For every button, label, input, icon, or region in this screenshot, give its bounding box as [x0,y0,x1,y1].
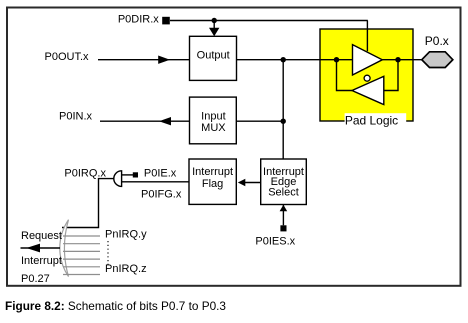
svg-text:P0IN.x: P0IN.x [59,111,93,123]
inverter bubble on input buffer [364,75,370,81]
svg-text:P0IES.x: P0IES.x [255,236,295,248]
buffer input driver (pad logic) [352,76,384,104]
pad logic box [320,29,413,121]
terminal square P0IE.x [133,172,138,177]
svg-text:Select: Select [268,186,299,198]
wire pad logic left feedback [337,60,353,91]
wire interrupt request output arrow [21,244,61,253]
wire collector bracket [60,220,69,277]
wire pad logic right feedback [384,60,398,91]
svg-text:PnIRQ.y: PnIRQ.y [105,228,147,240]
wire collector input 4 [63,258,100,260]
svg-text:P0DIR.x: P0DIR.x [118,13,159,25]
wire Output to pad logic [236,59,421,61]
wire PnIRQ.z input [63,274,100,276]
terminal square P0IES.x [280,225,286,231]
block Output [190,36,237,80]
wire P0OUT.x into Output [98,56,190,64]
svg-text:P0IFG.x: P0IFG.x [141,188,182,200]
wire P0DIR to Output block [209,21,219,37]
svg-text:Figure 8.2: Schematic of bits: Figure 8.2: Schematic of bits P0.7 to P0… [5,299,226,313]
wire P0IFG.x from Interrupt Flag to gate [122,181,189,183]
wire PnIRQ.y input [63,235,100,237]
wire P0DIR.x vertical to pad logic enable [366,21,368,52]
block Interrupt Edge Select [261,159,307,205]
node junction inside pad logic right [395,57,400,62]
wire collector input 2 [63,243,100,245]
wire P0IRQ.x from gate to collector [62,179,114,228]
svg-text:P0.x: P0.x [425,34,449,48]
wire collector input 3 [63,250,100,252]
wire P0DIR.x horizontal [170,20,368,22]
svg-text:P0IE.x: P0IE.x [144,168,177,180]
svg-text:P0.27: P0.27 [21,273,50,285]
dotted continuation between PnIRQ.y and PnIRQ.z [107,241,109,265]
wire Interrupt Edge Select to Interrupt Flag [238,179,261,186]
wire vertical bus line to interrupt edge select [282,60,284,159]
block Interrupt Flag [189,159,236,204]
svg-text:PnIRQ.z: PnIRQ.z [105,263,147,275]
and gate interrupt request [114,171,122,187]
svg-text:Pad Logic: Pad Logic [345,114,398,128]
svg-text:MUX: MUX [201,122,226,134]
label Pad Logic [345,113,407,128]
buffer output driver (pad logic) [353,45,383,75]
svg-text:Flag: Flag [202,178,223,190]
node junction at x=282.8 on output line [281,57,286,62]
wire P0IE.x to gate [122,174,133,176]
wire collector input 5 [63,266,100,268]
svg-text:P0OUT.x: P0OUT.x [44,51,89,63]
wire Input MUX to vertical line [236,120,283,122]
wire P0IES.x to Interrupt Edge Select [280,205,288,226]
svg-text:Request: Request [21,230,62,242]
svg-text:Interrupt: Interrupt [192,166,233,178]
terminal square P0DIR.x [162,17,170,25]
node junction input mux branch [281,119,286,124]
block Input MUX [190,97,237,144]
node junction on P0DIR line [212,18,217,23]
svg-text:Interrupt: Interrupt [21,255,62,267]
node junction inside pad logic left [334,57,339,62]
pad P0.x hexagon [422,52,453,68]
svg-text:P0IRQ.x: P0IRQ.x [64,167,106,179]
svg-text:Output: Output [197,50,230,62]
svg-text:Input: Input [201,110,225,122]
wire P0IN.x from Input MUX [100,117,190,125]
